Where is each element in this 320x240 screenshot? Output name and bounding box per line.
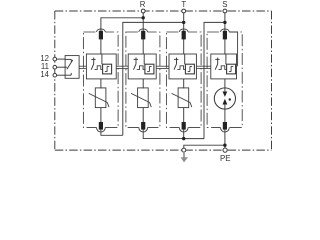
varistor module 3 (172, 88, 192, 108)
junction dot under S (223, 21, 226, 24)
module 3 wire varistor to bottom contact (183, 108, 185, 123)
remote signalling contact box (65, 56, 79, 79)
module 4 bottom plug contact (223, 122, 227, 130)
wire terminal T drop (183, 13, 185, 31)
svg-text:S: S (222, 0, 227, 9)
gas discharge tube module 4 (spark gap) (214, 88, 235, 109)
module 1 wire varistor to bottom contact (100, 108, 102, 123)
module 2 wire varistor to bottom contact (142, 108, 144, 123)
label 11 (41, 62, 49, 71)
label S (222, 0, 227, 9)
svg-text:R: R (140, 0, 146, 9)
module 2 top bushing arc (139, 28, 148, 37)
changeover contact 11-12-14 (65, 59, 73, 75)
module 1 wire contact to switch box (100, 39, 102, 54)
terminal 12 circle (53, 57, 57, 61)
module 4 thermal disconnect switch symbol (215, 54, 226, 70)
module 2 thermal element box (145, 64, 154, 74)
terminal 11 circle (53, 65, 57, 69)
svg-text:PE: PE (220, 154, 231, 163)
module 1 wire switch box to arrester (100, 79, 102, 89)
module 2 wire switch box to arrester (142, 79, 144, 89)
module 4 thermal element box (227, 64, 236, 74)
module 3 top plug contact (182, 31, 186, 40)
module 3 wire switch box to arrester (183, 79, 185, 89)
enclosure border top (dash-dot) (55, 10, 272, 12)
svg-text:14: 14 (40, 70, 49, 79)
mechanical linkage module 2 to module 3 (156, 66, 169, 68)
module 1 top bushing arc (97, 28, 106, 37)
junction dot under R (142, 16, 145, 19)
label PE (220, 154, 231, 163)
module 2 dashed box (126, 32, 160, 127)
module 1 bottom plug contact (99, 122, 103, 130)
wire bus R to module 1 (101, 17, 143, 19)
mechanical linkage contact box to module 1 (79, 66, 86, 68)
module 1 disconnect switch box (86, 54, 116, 79)
module 3 dashed box (166, 32, 201, 127)
junction dot under T (182, 21, 185, 24)
wire module 1 bottom to riser T (101, 129, 123, 135)
mechanical linkage module 1 to module 2 (116, 66, 128, 68)
terminal N circle (182, 148, 186, 152)
N conductor arrow symbol (181, 153, 188, 163)
module 2 wire contact to switch box (142, 39, 144, 54)
module 4 disconnect switch box (211, 54, 237, 79)
module 1 thermal disconnect switch symbol (91, 54, 102, 70)
module 4 wire contact to switch box (224, 39, 226, 54)
module 3 disconnect switch box (169, 54, 196, 79)
wire terminal 11 (57, 66, 66, 68)
module 2 bottom plug contact (141, 122, 145, 130)
module 2 thermal disconnect switch symbol (134, 54, 145, 70)
wire riser S (between modules 3-4) (203, 22, 205, 139)
mechanical linkage module 3 to module 4 (196, 66, 210, 68)
module 3 wire contact to switch box (183, 39, 185, 54)
module 4 monitoring tap wire (229, 32, 237, 66)
terminal R circle (141, 9, 145, 13)
wire bus T to riser (123, 21, 184, 23)
module 3 top bushing arc (179, 28, 188, 37)
wire module 2 bottom to N node (143, 129, 184, 138)
module 1 dashed box (83, 32, 118, 127)
module 3 bottom plug contact (182, 122, 186, 130)
module 4 top plug contact (223, 31, 227, 40)
terminal 14 circle (53, 73, 57, 77)
label R (140, 0, 146, 9)
terminal PE circle (223, 148, 227, 152)
wire module 1 top drop (100, 17, 102, 31)
terminal T circle (182, 9, 186, 13)
wire riser T (between modules 1-2) (122, 22, 124, 135)
module 1 bottom bushing arc (96, 123, 105, 132)
svg-text:T: T (181, 0, 186, 9)
wire N node to riser S (184, 138, 204, 140)
module 3 thermal disconnect switch symbol (174, 54, 185, 70)
module 2 bottom bushing arc (139, 123, 148, 132)
terminal S circle (223, 9, 227, 13)
label 14 (40, 70, 49, 79)
wire module 4 bottom to PE node (224, 129, 226, 148)
module 2 top plug contact (141, 31, 145, 40)
module 2 disconnect switch box (128, 54, 156, 79)
module 4 top bushing arc (221, 28, 230, 37)
wire PE node to N terminal (184, 145, 225, 148)
varistor module 2 (131, 88, 151, 108)
label 12 (40, 54, 49, 63)
junction dot PE node (223, 144, 226, 147)
module 3 bottom bushing arc (179, 123, 188, 132)
wire bus S to riser (204, 21, 225, 23)
junction dot N node (182, 137, 185, 140)
module 4 wire switch box to arrester (224, 79, 226, 88)
varistor module 1 (89, 88, 109, 108)
module 4 bottom bushing arc (220, 123, 229, 132)
module 1 thermal element box (103, 64, 112, 74)
wire terminal 12 (57, 58, 66, 60)
module 3 thermal element box (185, 64, 194, 74)
enclosure border bottom (dash-dot) (55, 149, 272, 151)
wire terminal 14 (57, 74, 66, 76)
wire module 3 bottom drop (183, 129, 185, 138)
module 4 wire spark gap to bottom contact (224, 109, 226, 122)
wire terminal R drop (142, 13, 144, 31)
module 1 top plug contact (99, 31, 103, 40)
wire terminal S drop (224, 13, 226, 31)
label T (181, 0, 186, 9)
enclosure border left (dash-dot) (54, 11, 56, 150)
enclosure border right (dash-dot) (271, 11, 273, 150)
module 4 dashed box (207, 32, 242, 127)
